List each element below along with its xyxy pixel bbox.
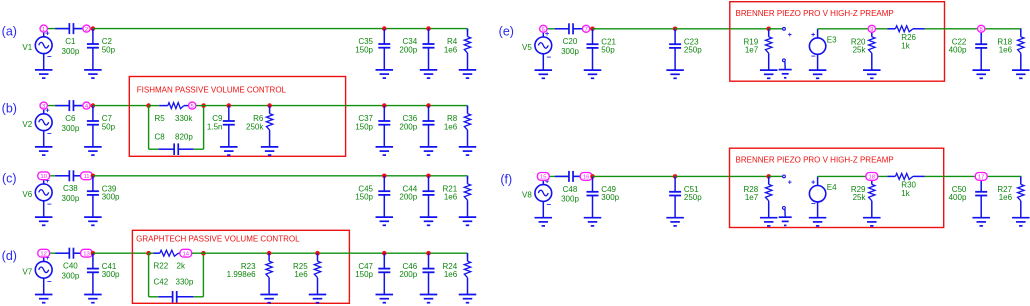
ground of C7 — [84, 147, 102, 155]
svg-text:1.998e6: 1.998e6 — [227, 270, 256, 279]
resistor R22 2k — [149, 250, 186, 270]
capacitor C39 300p — [87, 176, 120, 217]
svg-text:R5: R5 — [155, 114, 166, 123]
svg-text:9: 9 — [870, 27, 873, 33]
svg-text:V1: V1 — [22, 43, 32, 52]
wire to C23 — [593, 28, 676, 30]
svg-text:250p: 250p — [684, 193, 702, 202]
svg-text:–: – — [47, 277, 52, 286]
svg-text:12: 12 — [40, 251, 47, 257]
capacitor C38 300p — [55, 170, 84, 203]
resistor R30 1k — [888, 173, 925, 198]
wire C6 to node 4 — [73, 105, 86, 107]
ground of R23 — [260, 295, 278, 303]
svg-text:–: – — [47, 199, 52, 208]
box BRENNER PIEZO PRO V HIGH-Z PREAMP — [730, 148, 944, 227]
node 15 — [537, 173, 549, 181]
svg-text:400p: 400p — [949, 46, 967, 55]
junction at C23 — [673, 27, 678, 32]
ground of V7 — [35, 295, 53, 303]
ground of V8 — [535, 218, 553, 226]
svg-text:7: 7 — [584, 27, 587, 33]
svg-text:11: 11 — [83, 174, 89, 180]
ground of E3 — [809, 70, 827, 78]
svg-text:300p: 300p — [62, 47, 80, 56]
vcvs E3 — [809, 29, 837, 70]
wire node 3 to C6 — [48, 105, 70, 107]
svg-text:V6: V6 — [22, 190, 32, 199]
voltage source V1 — [22, 29, 52, 70]
- input pin of E3 — [783, 59, 786, 70]
svg-text:200p: 200p — [399, 193, 417, 202]
svg-text:300p: 300p — [561, 47, 579, 56]
svg-text:+: + — [788, 32, 792, 39]
wire C48 to node 16 — [573, 175, 586, 177]
svg-text:330p: 330p — [176, 278, 194, 287]
box GRAPHTECH PASSIVE VOLUME CONTROL — [132, 230, 349, 303]
svg-text:1e7: 1e7 — [745, 46, 759, 55]
svg-text:15: 15 — [540, 175, 547, 181]
svg-text:400p: 400p — [949, 193, 967, 202]
wire node 6 to C20 — [547, 28, 569, 30]
svg-text:150p: 150p — [355, 270, 373, 279]
capacitor C23 250p — [669, 29, 702, 70]
ground of R27 — [1012, 218, 1030, 226]
wire corner into R8 — [467, 106, 469, 110]
wire to + input pin — [769, 175, 783, 177]
voltage source V8 — [522, 176, 552, 217]
ground of C45 — [376, 217, 394, 225]
ground of C34 — [420, 70, 438, 78]
wire node 1 to C1 — [48, 28, 70, 30]
junction at C46 — [426, 251, 431, 256]
capacitor C41 300p — [87, 253, 120, 294]
capacitor C40 300p — [55, 248, 84, 281]
vcvs E4 — [809, 176, 837, 217]
svg-text:300p: 300p — [102, 270, 120, 279]
junction at C9 — [227, 103, 232, 108]
resistor R23 1.998e6 — [227, 253, 273, 294]
svg-text:1k: 1k — [901, 189, 910, 198]
ground of R28 — [760, 218, 778, 226]
ground of R24 — [459, 295, 477, 303]
svg-text:17: 17 — [978, 175, 985, 181]
ground of R8 — [459, 147, 477, 155]
svg-text:50p: 50p — [102, 45, 116, 54]
node 5 — [189, 102, 196, 110]
svg-text:2k: 2k — [177, 262, 186, 271]
ground of C49 — [584, 218, 602, 226]
svg-text:–: – — [811, 199, 816, 208]
capacitor C47 150p — [355, 253, 390, 294]
svg-text:50p: 50p — [102, 122, 116, 131]
ground of R21 — [459, 217, 477, 225]
svg-text:1: 1 — [42, 27, 45, 33]
circuit label a — [2, 25, 17, 39]
wire row c main — [93, 175, 468, 177]
svg-text:300p: 300p — [601, 193, 619, 202]
svg-text:300p: 300p — [102, 193, 120, 202]
junction at C21 — [590, 27, 595, 32]
capacitor C51 250p — [669, 176, 702, 217]
capacitor C8 820p — [155, 133, 194, 156]
svg-text:250k: 250k — [246, 122, 264, 131]
wire E3 output — [818, 28, 888, 30]
junction at C37 — [382, 103, 387, 108]
wire C51 to preamp box — [675, 175, 769, 177]
junction at C44 — [426, 174, 431, 179]
capacitor C22 400p — [949, 29, 988, 70]
circuit label c — [2, 172, 17, 186]
ground of C23 — [666, 70, 684, 78]
resistor R18 1e6 — [997, 29, 1024, 70]
svg-text:C20: C20 — [563, 37, 578, 46]
svg-text:1e7: 1e7 — [745, 193, 759, 202]
wire node 10 to C38 — [48, 175, 70, 177]
svg-text:300p: 300p — [62, 271, 80, 280]
box BRENNER PIEZO PRO V HIGH-Z PREAMP — [730, 2, 945, 82]
wire loop d to loads — [203, 252, 467, 254]
wire corner into R18 — [1020, 29, 1022, 33]
svg-text:–: – — [811, 51, 816, 60]
ground of V5 — [535, 70, 553, 78]
wire loop to loads — [204, 105, 468, 107]
svg-text:(b): (b) — [2, 102, 17, 116]
svg-text:C42: C42 — [154, 278, 169, 287]
junction at R28 — [766, 174, 771, 179]
ground of R19 — [760, 70, 778, 78]
svg-text:25k: 25k — [853, 193, 867, 202]
svg-text:GRAPHTECH PASSIVE VOLUME CONTR: GRAPHTECH PASSIVE VOLUME CONTROL — [136, 235, 300, 244]
capacitor C7 50p — [87, 106, 116, 147]
+ input pin of E3 — [783, 27, 792, 38]
ground of C35 — [376, 70, 394, 78]
ground of C36 — [420, 147, 438, 155]
wire corner into R24 — [467, 253, 469, 257]
node 17 — [975, 173, 987, 181]
resistor R6 250k — [246, 106, 273, 147]
svg-text:(c): (c) — [2, 172, 17, 186]
svg-text:330k: 330k — [175, 114, 193, 123]
capacitor C20 300p — [555, 23, 584, 56]
junction at C39 — [91, 174, 96, 179]
node 7 — [582, 25, 589, 33]
svg-text:50p: 50p — [601, 46, 615, 55]
wire node 5 to loop right — [197, 105, 204, 107]
wire node 12 to C40 — [48, 252, 70, 254]
capacitor C49 300p — [587, 176, 620, 217]
resistor R21 1e6 — [443, 176, 471, 217]
svg-text:200p: 200p — [399, 45, 417, 54]
svg-text:14: 14 — [183, 251, 190, 257]
wire row b to volume box — [93, 105, 149, 107]
wire loop left d — [149, 253, 159, 297]
svg-text:C38: C38 — [63, 184, 78, 193]
svg-text:C6: C6 — [65, 114, 76, 123]
wire row a main — [93, 28, 468, 30]
ground of R29 — [863, 218, 881, 226]
ground of C44 — [420, 217, 438, 225]
wire to C51 — [593, 175, 676, 177]
svg-text:25k: 25k — [853, 46, 867, 55]
wire corner into R27 — [1020, 176, 1022, 180]
wire row d to volume box — [93, 252, 149, 254]
capacitor C35 150p — [355, 29, 390, 70]
svg-text:300p: 300p — [62, 124, 80, 133]
capacitor C21 50p — [587, 29, 617, 70]
capacitor C37 150p — [355, 106, 390, 147]
svg-text:FISHMAN PASSIVE VOLUME CONTROL: FISHMAN PASSIVE VOLUME CONTROL — [137, 86, 287, 95]
capacitor C9 1.5n — [207, 106, 235, 147]
svg-text:150p: 150p — [355, 45, 373, 54]
svg-text:200p: 200p — [399, 270, 417, 279]
svg-text:+: + — [788, 179, 792, 186]
svg-text:–: – — [47, 129, 52, 138]
svg-text:–: – — [547, 200, 552, 209]
wire corner into R21 — [467, 176, 469, 180]
svg-text:(e): (e) — [499, 25, 514, 39]
+ input pin of E4 — [783, 175, 792, 186]
wire node 15 to C48 — [547, 175, 569, 177]
svg-text:18: 18 — [869, 175, 876, 181]
voltage source V2 — [22, 106, 52, 147]
svg-text:150p: 150p — [355, 193, 373, 202]
svg-text:820p: 820p — [175, 133, 193, 142]
ground of R4 — [459, 70, 477, 78]
ground of C2 — [84, 70, 102, 78]
svg-text:(d): (d) — [2, 249, 17, 263]
junction at R19 — [766, 27, 771, 32]
capacitor C2 50p — [87, 29, 116, 70]
resistor R4 1e6 — [444, 29, 471, 70]
resistor R29 25k — [851, 176, 875, 217]
junction loop left d — [146, 251, 151, 256]
capacitor C48 300p — [555, 171, 584, 204]
junction loop left — [146, 103, 151, 108]
junction at C45 — [382, 174, 387, 179]
resistor R24 1e6 — [443, 253, 471, 294]
resistor R20 25k — [851, 29, 875, 70]
ground of E4 — [809, 218, 827, 226]
svg-text:300p: 300p — [62, 194, 80, 203]
wire C1 to node 2 — [73, 28, 86, 30]
svg-text:(a): (a) — [2, 25, 17, 39]
node 18 — [866, 173, 878, 181]
svg-text:1.5n: 1.5n — [207, 122, 223, 131]
svg-text:200p: 200p — [399, 122, 417, 131]
node 11 — [81, 172, 93, 180]
circuit label b — [2, 102, 17, 116]
svg-text:1e6: 1e6 — [999, 46, 1013, 55]
resistor R28 1e7 — [744, 176, 772, 217]
resistor R8 1e6 — [444, 106, 471, 147]
wire corner into R4 — [467, 29, 469, 32]
node 16 — [580, 173, 592, 181]
node 2 — [83, 25, 90, 33]
capacitor C44 200p — [399, 176, 434, 217]
ground of C47 — [376, 295, 394, 303]
junction at C7 — [91, 103, 96, 108]
wire loop left — [149, 106, 159, 150]
ground of C37 — [376, 147, 394, 155]
- input pin of E4 — [783, 207, 786, 218]
svg-text:V7: V7 — [22, 267, 32, 276]
circuit label e — [499, 25, 514, 39]
svg-text:13: 13 — [83, 251, 90, 257]
resistor R25 1e6 — [293, 253, 321, 294]
junction at R25 — [315, 251, 320, 256]
capacitor C36 200p — [399, 106, 434, 147]
ground of C22 — [972, 70, 990, 78]
voltage source V5 — [522, 29, 552, 70]
node 12 — [38, 249, 50, 257]
node 10 — [38, 172, 50, 180]
ground of C9 — [220, 147, 238, 155]
ground of C51 — [666, 218, 684, 226]
wire E4 output — [818, 175, 888, 177]
box FISHMAN PASSIVE VOLUME CONTROL — [129, 77, 345, 157]
ground of V6 — [35, 217, 53, 225]
junction at C41 — [91, 251, 96, 256]
ground of C50 — [972, 218, 990, 226]
ground of - input pin — [779, 217, 792, 225]
svg-text:C40: C40 — [63, 262, 78, 271]
svg-text:300p: 300p — [561, 195, 579, 204]
ground of R18 — [1012, 70, 1030, 78]
svg-text:1e6: 1e6 — [444, 45, 458, 54]
wire node 14 to loop right — [192, 252, 203, 254]
node 13 — [81, 249, 93, 257]
voltage source V7 — [22, 253, 52, 294]
junction at C35 — [382, 26, 387, 31]
svg-text:1k: 1k — [901, 41, 910, 50]
svg-text:BRENNER PIEZO PRO V HIGH-Z PRE: BRENNER PIEZO PRO V HIGH-Z PREAMP — [736, 156, 894, 165]
junction at C49 — [590, 174, 595, 179]
svg-text:(f): (f) — [500, 172, 512, 186]
node 8 — [978, 25, 985, 33]
svg-text:R22: R22 — [154, 262, 169, 271]
wire R30 to C50 — [925, 175, 1022, 177]
junction at C2 — [91, 26, 96, 31]
svg-text:2: 2 — [85, 27, 88, 33]
svg-text:C1: C1 — [65, 37, 76, 46]
node 4 — [83, 102, 90, 110]
svg-text:V2: V2 — [22, 120, 32, 129]
node 3 — [40, 102, 47, 110]
wire R26 to C22 — [925, 28, 1022, 30]
junction at C51 — [673, 174, 678, 179]
svg-text:V5: V5 — [522, 43, 532, 52]
ground of C39 — [84, 217, 102, 225]
ground of V2 — [35, 147, 53, 155]
node 6 — [540, 25, 547, 33]
ground of C46 — [420, 295, 438, 303]
ground of R20 — [863, 70, 881, 78]
svg-text:V8: V8 — [522, 191, 532, 200]
junction at C36 — [426, 103, 431, 108]
wire loop right d — [193, 253, 203, 297]
svg-text:E3: E3 — [827, 35, 837, 44]
circuit label f — [500, 172, 512, 186]
wire loop right — [193, 106, 203, 150]
svg-text:16: 16 — [583, 175, 590, 181]
wire to + input pin — [769, 28, 783, 30]
svg-text:1e6: 1e6 — [444, 193, 458, 202]
circuit label d — [2, 249, 17, 263]
svg-text:150p: 150p — [355, 122, 373, 131]
node 9 — [868, 25, 875, 33]
resistor R27 1e6 — [997, 176, 1024, 217]
svg-text:E4: E4 — [827, 183, 837, 192]
ground of R6 — [261, 147, 279, 155]
svg-text:250p: 250p — [684, 46, 702, 55]
junction at R23 — [267, 251, 272, 256]
wire C23 to preamp box — [675, 28, 769, 30]
svg-text:1e6: 1e6 — [444, 270, 458, 279]
node 14 — [180, 249, 192, 257]
capacitor C46 200p — [399, 253, 434, 294]
ground of C21 — [584, 70, 602, 78]
ground of - input pin — [779, 70, 792, 78]
svg-text:C8: C8 — [155, 133, 166, 142]
junction loop right — [201, 103, 206, 108]
resistor R19 1e7 — [744, 29, 772, 70]
capacitor C42 330p — [154, 278, 194, 303]
svg-text:–: – — [47, 52, 52, 61]
svg-text:10: 10 — [40, 174, 47, 180]
capacitor C34 200p — [399, 29, 434, 70]
svg-text:BRENNER PIEZO PRO V HIGH-Z PRE: BRENNER PIEZO PRO V HIGH-Z PREAMP — [736, 9, 894, 18]
node 1 — [40, 25, 47, 33]
wire C20 to node 7 — [573, 28, 586, 30]
wire C38 to node 11 — [73, 175, 86, 177]
capacitor C1 300p — [55, 23, 84, 56]
ground of C41 — [84, 295, 102, 303]
capacitor C6 300p — [55, 100, 84, 133]
junction loop right d — [201, 251, 206, 256]
voltage source V6 — [22, 176, 52, 217]
svg-text:C48: C48 — [563, 185, 578, 194]
svg-text:–: – — [547, 52, 552, 61]
junction at C34 — [426, 26, 431, 31]
ground of R25 — [309, 295, 327, 303]
capacitor C50 400p — [949, 176, 988, 217]
junction at R6 — [267, 103, 272, 108]
svg-text:1e6: 1e6 — [999, 193, 1013, 202]
wire C40 to node 13 — [73, 252, 86, 254]
resistor R5 330k — [149, 103, 194, 123]
svg-text:1e6: 1e6 — [294, 270, 308, 279]
ground of V1 — [35, 70, 53, 78]
resistor R26 1k — [888, 26, 925, 51]
capacitor C45 150p — [355, 176, 390, 217]
junction at C47 — [382, 251, 387, 256]
svg-text:1e6: 1e6 — [444, 122, 458, 131]
